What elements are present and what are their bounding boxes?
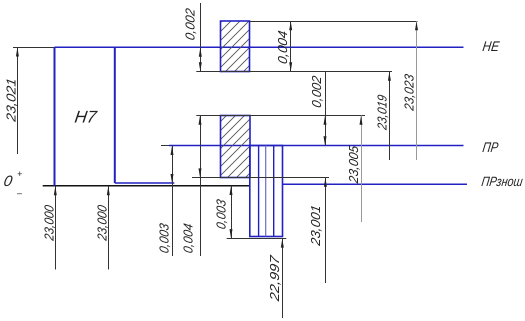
zero line (nominal 23.000) <box>43 185 250 187</box>
dim 0,004 lower (PR zone height) line <box>200 116 202 257</box>
svg-text:22,997: 22,997 <box>267 254 282 304</box>
extension line at 23.021 level (left of H7 box) <box>13 47 55 49</box>
dim 23,019 line <box>389 72 391 161</box>
svg-text:Н7: Н7 <box>73 108 99 127</box>
svg-text:0,004: 0,004 <box>275 29 290 65</box>
dim 0,003 left (Z offset) line <box>172 146 174 257</box>
dim 0,002 upper arrows <box>199 48 202 57</box>
dim 23,023 line <box>416 21 418 160</box>
dim 0,002 upper line <box>200 3 202 72</box>
svg-text:0: 0 <box>2 173 14 190</box>
dim 0,002 lower arrows <box>324 116 327 125</box>
dim 23,021 line <box>17 47 19 154</box>
H7 zone box right edge <box>114 47 116 183</box>
svg-text:23,021: 23,021 <box>3 77 18 124</box>
PR gauge tolerance zone rect <box>221 116 251 178</box>
svg-text:23,023: 23,023 <box>402 72 417 112</box>
svg-text:+: + <box>17 169 22 179</box>
dim 23,000 first arrow <box>54 186 57 195</box>
svg-text:23,019: 23,019 <box>374 93 389 132</box>
dim 23,000 second line <box>108 186 110 270</box>
svg-text:23,000: 23,000 <box>94 203 109 242</box>
H7 zone box left edge <box>54 47 56 186</box>
dim 22,997 line <box>282 238 284 318</box>
PR line (go gauge) <box>161 145 169 147</box>
dim 23,019 arrow <box>388 72 391 81</box>
dim 0,003 right arrows <box>230 186 233 195</box>
wear zone rect (vertical hatch) <box>250 146 283 237</box>
svg-text:НЕ: НЕ <box>482 38 501 54</box>
extension line at 23.005 level (top of PR rect, to the right) <box>196 115 365 117</box>
dim 0,002 lower (PR top to PR line) line <box>325 72 327 146</box>
svg-text:0,004: 0,004 <box>181 222 196 254</box>
dim 0,004 upper arrows <box>289 21 292 30</box>
extension line at 23.019 level (bottom of HE rect) <box>196 71 392 73</box>
svg-text:0,003: 0,003 <box>214 198 229 231</box>
dim 0,003 right (wear allowance Y) line <box>231 186 233 239</box>
dim 0,003 left arrows <box>171 146 174 155</box>
dim 23,005 line <box>361 116 363 223</box>
extension line at 23.001 level (bottom of PR rect) <box>192 177 329 179</box>
dim 22,997 arrow <box>281 239 284 248</box>
dim 23,000 first line <box>55 186 57 270</box>
dim 23,000 second arrow <box>107 186 110 195</box>
HE line (non-go gauge) <box>55 46 464 48</box>
blue bottom segment from H7 box to 0,003 dim <box>115 182 175 184</box>
wear zone vertical hatch lines <box>258 146 260 237</box>
dim 0,004 lower arrows <box>199 116 202 125</box>
dim 0,004 upper (HE zone height) line <box>290 21 292 72</box>
dim 23,001 line <box>325 178 327 283</box>
extension line at 23.023 level (top of HE rect, to the right) <box>250 21 418 23</box>
svg-text:0,003: 0,003 <box>157 222 172 255</box>
svg-text:–: – <box>16 188 23 198</box>
svg-text:23,005: 23,005 <box>346 144 361 185</box>
svg-text:23,000: 23,000 <box>41 203 56 242</box>
dim 23,021 arrow <box>16 48 19 57</box>
dim 23,023 arrow <box>415 21 418 30</box>
dim 23,001 arrow <box>324 178 327 187</box>
svg-text:ПРзнош: ПРзнош <box>481 174 524 189</box>
extension line at 22.997 level (bottom of wear zone) <box>227 238 287 240</box>
dim 23,005 arrow <box>360 116 363 125</box>
svg-text:0,002: 0,002 <box>309 74 324 109</box>
svg-text:23,001: 23,001 <box>308 204 323 248</box>
PRiznos line (worn go limit) <box>283 183 468 185</box>
HE gauge tolerance zone rect <box>221 21 250 72</box>
svg-text:ПР: ПР <box>482 139 500 155</box>
svg-text:0,002: 0,002 <box>183 6 198 41</box>
